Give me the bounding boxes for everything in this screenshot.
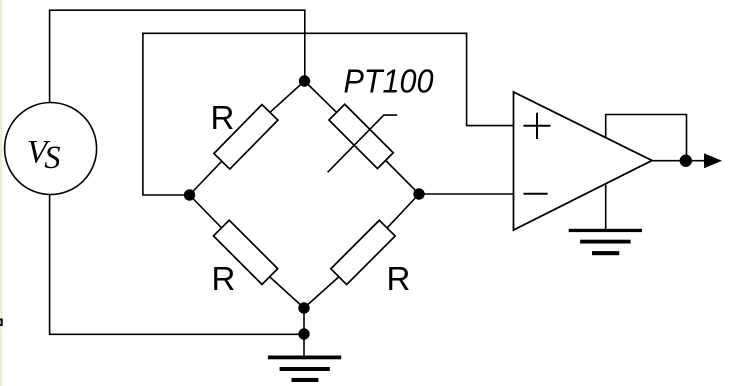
output arrow	[704, 153, 722, 168]
resistor R1 label	[211, 99, 235, 136]
resistor PT100 body	[329, 104, 393, 168]
wire PT100 to right node	[386, 161, 419, 195]
ground (bridge bottom)	[268, 356, 341, 383]
page edge stripe	[0, 0, 3, 386]
PT100 slash	[328, 115, 398, 172]
resistor R2 label	[212, 260, 236, 297]
node bottom	[298, 302, 309, 313]
wire left node to resistor R bottom-left	[190, 195, 222, 228]
svg-text:R: R	[211, 99, 235, 136]
wire bridge left node to op-amp + input	[143, 33, 514, 195]
op-amp U1	[514, 92, 653, 230]
node top	[299, 75, 310, 86]
wire left node to resistor R top-left	[190, 161, 222, 195]
svg-text:R: R	[387, 260, 411, 297]
node output	[680, 155, 692, 167]
resistor R3 label	[387, 260, 411, 297]
svg-text:R: R	[212, 260, 236, 297]
ground (op-amp)	[569, 229, 642, 255]
node left	[184, 189, 195, 200]
page edge mark	[0, 320, 2, 326]
resistor R3 bottom-right body	[331, 220, 395, 284]
wire resistor R top-left to top node	[270, 81, 305, 112]
resistor R2 bottom-left body	[213, 220, 277, 284]
resistor R1 top-left body	[214, 105, 278, 170]
svg-text:S: S	[44, 140, 60, 176]
node right	[413, 188, 424, 199]
wire resistor R bottom-left to bottom node	[270, 277, 304, 308]
wire bottom node to resistor R bottom-right	[304, 277, 339, 308]
wire op-amp feedback loop	[606, 115, 687, 161]
wire VS top to bridge top node	[50, 10, 305, 103]
wire bridge right node to op-amp - input	[419, 193, 514, 195]
wire VS bottom to ground node	[50, 194, 304, 334]
svg-text:PT100: PT100	[344, 63, 435, 100]
voltage source VS	[5, 103, 97, 195]
node ground junction	[298, 328, 309, 339]
wire op-amp to ground	[605, 183, 607, 229]
wire resistor R bottom-right to right node	[387, 194, 419, 228]
wire top node to PT100	[305, 81, 337, 112]
PT100 label	[344, 63, 435, 100]
wire op-amp output	[652, 160, 705, 162]
wire bridge bottom node to ground	[303, 308, 305, 358]
